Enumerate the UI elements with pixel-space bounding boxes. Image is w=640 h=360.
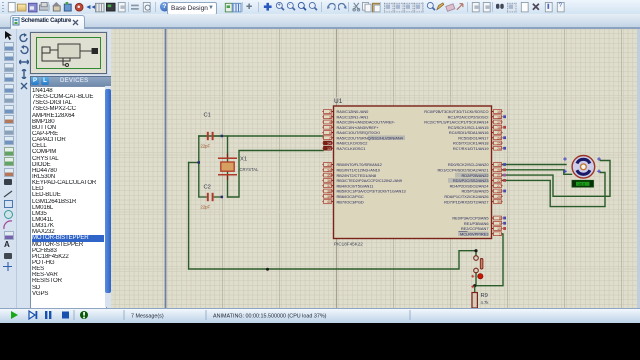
- svg-text:37: 37: [327, 184, 331, 188]
- pin 37 RB4: [323, 183, 374, 188]
- highlight MCLR: [458, 231, 489, 236]
- node gnd junction: [198, 161, 201, 164]
- pin 35 RB2: [323, 173, 377, 178]
- wire RD0 to motor LT: [501, 164, 567, 166]
- svg-text:RB0/INT0/FLT0/SRI/AN12: RB0/INT0/FLT0/SRI/AN12: [337, 162, 382, 167]
- svg-text:RB5/IOC1/P3A/CCP3/T3CKI/T1G/AN: RB5/IOC1/P3A/CCP3/T3CKI/T1G/AN13: [337, 189, 406, 194]
- svg-text:28: 28: [497, 190, 501, 194]
- pin 28 RD5: [461, 189, 506, 194]
- pin 22 RD3: [453, 178, 506, 183]
- svg-text:RD5/P1B/AN25: RD5/P1B/AN25: [461, 189, 488, 194]
- pin 39 RB6: [323, 194, 364, 199]
- svg-text:C2: C2: [204, 185, 211, 191]
- pin 2 RA0: [323, 109, 370, 114]
- svg-text:30: 30: [497, 200, 501, 204]
- svg-text:RC5/SDO1/AN17: RC5/SDO1/AN17: [458, 135, 488, 140]
- svg-text:23: 23: [497, 131, 501, 135]
- svg-text:21: 21: [497, 174, 501, 178]
- wire left cap rail: [198, 136, 200, 197]
- svg-text:8: 8: [499, 217, 501, 221]
- svg-text:18: 18: [497, 126, 501, 130]
- pin 14 RA6: [323, 141, 368, 146]
- motor counter display: [572, 180, 594, 187]
- pin 20 RD1: [437, 168, 506, 173]
- svg-text:40: 40: [327, 200, 331, 204]
- node gnd wire junction: [266, 268, 269, 271]
- svg-text:20: 20: [497, 168, 501, 172]
- motor terminal: [597, 157, 601, 161]
- pin 8 RE0: [452, 216, 506, 221]
- svg-text:13: 13: [327, 147, 331, 151]
- svg-text:1: 1: [499, 232, 501, 236]
- svg-text:RA3/C1IN+/AN3/VREF+: RA3/C1IN+/AN3/VREF+: [337, 125, 380, 130]
- svg-text:RE0/P3A/CCP3/AN5: RE0/P3A/CCP3/AN5: [452, 216, 488, 221]
- wire ground run: [189, 163, 476, 270]
- svg-text:RB3/CTED2/P2A/CCP2/C12IN2-/AN9: RB3/CTED2/P2A/CCP2/C12IN2-/AN9: [337, 178, 403, 183]
- svg-text:7: 7: [329, 136, 331, 140]
- svg-text:36: 36: [327, 179, 331, 183]
- svg-text:PIC18F45K22: PIC18F45K22: [334, 242, 363, 247]
- svg-text:10: 10: [497, 227, 501, 231]
- svg-text:MCLR/VPP/RE3: MCLR/VPP/RE3: [460, 231, 489, 236]
- svg-text:CRYSTAL: CRYSTAL: [240, 167, 260, 172]
- pin 38 RB5: [323, 189, 406, 194]
- svg-text:16: 16: [497, 115, 501, 119]
- svg-text:RB2/INT2/CTED1/AN8: RB2/INT2/CTED1/AN8: [337, 173, 377, 178]
- svg-text:RC3/SCK1/SCL1/AN15: RC3/SCK1/SCL1/AN15: [448, 125, 489, 130]
- pin 6 RA4: [323, 130, 380, 135]
- wire button bottom stub: [475, 273, 476, 286]
- svg-text:RC2/CTPLS/P1A/CCP1/T5CKI/AN14: RC2/CTPLS/P1A/CCP1/T5CKI/AN14: [424, 120, 489, 125]
- pin 9 RE1: [464, 221, 506, 226]
- motor terminal: [563, 170, 567, 174]
- svg-text:RA7/CLKI/OSC1: RA7/CLKI/OSC1: [337, 146, 366, 151]
- pin 26 RC7: [453, 146, 506, 151]
- svg-text:RD4/P2D/SDO2/AN24: RD4/P2D/SDO2/AN24: [450, 183, 490, 188]
- pin 19 RD0: [448, 162, 506, 167]
- node OSC1 junction: [221, 196, 224, 199]
- svg-text:24: 24: [497, 136, 501, 140]
- pin 10 RE2: [461, 226, 506, 231]
- svg-text:27: 27: [497, 184, 501, 188]
- svg-text:RB6/IOC2/PGC: RB6/IOC2/PGC: [337, 194, 364, 199]
- wire RD2 to motor RT loop: [501, 161, 611, 197]
- svg-text:34: 34: [327, 168, 331, 172]
- svg-text:19: 19: [497, 163, 501, 167]
- chip U1: [334, 98, 492, 247]
- pin 40 RB7: [323, 199, 364, 204]
- wire MCLR to button bottom and R9: [475, 234, 503, 286]
- svg-text:29: 29: [497, 195, 501, 199]
- svg-text:ANIMATING: 00:00:15.500000 (CP: ANIMATING: 00:00:15.500000 (CPU load 37%…: [213, 314, 327, 320]
- svg-text:33: 33: [327, 163, 331, 167]
- capacitor C2: [199, 185, 221, 210]
- svg-text:RD3/P2C/SS2/AN23: RD3/P2C/SS2/AN23: [453, 178, 489, 183]
- svg-text:RC4/SDI1/SDA1/AN16: RC4/SDI1/SDA1/AN16: [449, 130, 489, 135]
- svg-text:C1: C1: [204, 113, 211, 119]
- svg-text:RA4/C1OUT/SRQ/T0CKI: RA4/C1OUT/SRQ/T0CKI: [337, 130, 380, 135]
- svg-text:RD1/CCP4/SDI2/SDA2/AN21: RD1/CCP4/SDI2/SDA2/AN21: [437, 168, 488, 173]
- pin 1 RE3: [460, 231, 503, 236]
- highlight RD2: [455, 173, 489, 178]
- svg-text:25: 25: [497, 142, 501, 146]
- svg-text:22pF: 22pF: [201, 205, 211, 210]
- button: [471, 256, 483, 289]
- pin 17 RC2: [424, 120, 502, 125]
- svg-text:RB7/IOC3/PGD: RB7/IOC3/PGD: [337, 199, 364, 204]
- svg-text:RB1/INT1/C12IN3-/AN10: RB1/INT1/C12IN3-/AN10: [337, 168, 381, 173]
- pin 7 RA5: [323, 135, 404, 140]
- svg-text:38: 38: [327, 190, 331, 194]
- pin 13 RA7: [323, 146, 366, 151]
- svg-text:RA2/C2IN+/AN2/DACOUT/VREF-: RA2/C2IN+/AN2/DACOUT/VREF-: [337, 120, 396, 125]
- pin 21 RD2: [461, 173, 506, 178]
- svg-text:RC0/P2B/T3CKI/T3G/T1CKI/SOSCO: RC0/P2B/T3CKI/T3G/T1CKI/SOSCO: [424, 109, 488, 114]
- wire C2/crystal node to OSC1 pin: [228, 151, 324, 198]
- svg-text:RD7/P1D/RX2/DT2/AN27: RD7/P1D/RX2/DT2/AN27: [444, 199, 488, 204]
- svg-text:6: 6: [329, 131, 331, 135]
- svg-text:RD0/SCK2/SCL2/AN20: RD0/SCK2/SCL2/AN20: [448, 162, 489, 167]
- svg-text:2: 2: [329, 110, 331, 114]
- svg-text:5: 5: [329, 126, 331, 130]
- svg-text:3: 3: [329, 115, 331, 119]
- pin 15 RC0: [424, 109, 502, 114]
- highlight RD3: [448, 178, 489, 183]
- pin 4 RA2: [323, 120, 396, 125]
- svg-text:R9: R9: [481, 293, 488, 299]
- svg-text:RE2/CCP5/AN7: RE2/CCP5/AN7: [461, 226, 489, 231]
- svg-text:15: 15: [497, 110, 501, 114]
- capacitor C1: [199, 113, 221, 149]
- svg-text:RE1/P3B/AN6: RE1/P3B/AN6: [464, 221, 489, 226]
- pin 29 RD6: [444, 194, 502, 199]
- svg-text:35: 35: [327, 174, 331, 178]
- node R9 top junction: [473, 284, 476, 287]
- resistor R9: [472, 286, 489, 308]
- svg-text:17: 17: [497, 121, 501, 125]
- svg-text:RD2/P2B/AN22: RD2/P2B/AN22: [461, 173, 488, 178]
- pin 23 RC4: [449, 130, 503, 135]
- svg-text:7 Message(s): 7 Message(s): [131, 314, 164, 320]
- pin 33 RB0: [323, 162, 382, 167]
- svg-text:14: 14: [327, 142, 331, 146]
- wire RD3 to motor RB loop: [501, 173, 606, 207]
- svg-text:RD6/P1C/TX2/CK2/AN26: RD6/P1C/TX2/CK2/AN26: [444, 194, 488, 199]
- highlight RA5: [368, 135, 405, 140]
- svg-text:RA6/CLKO/OSC2: RA6/CLKO/OSC2: [337, 141, 368, 146]
- pin 27 RD4: [450, 183, 503, 188]
- svg-text:RA5/C2OUT/SRNQ/SS1/HLVDIN/AN4: RA5/C2OUT/SRNQ/SS1/HLVDIN/AN4: [337, 135, 404, 140]
- svg-text:X1: X1: [240, 157, 247, 163]
- svg-text:+0.0: +0.0: [578, 182, 585, 186]
- svg-text:22pF: 22pF: [201, 144, 211, 149]
- svg-text:26: 26: [497, 147, 501, 151]
- svg-text:4.7k: 4.7k: [481, 300, 490, 305]
- svg-text:22: 22: [497, 179, 501, 183]
- wire RD1 to motor LB: [501, 170, 572, 175]
- wire crystal vertical: [227, 136, 229, 197]
- pin 16 RC1: [448, 114, 506, 119]
- pin 25 RC6: [453, 141, 502, 146]
- pin 3 RA1: [323, 114, 369, 119]
- svg-text:RC1/P2A/CCP2/SOSCI: RC1/P2A/CCP2/SOSCI: [448, 114, 489, 119]
- pin 5 RA3: [323, 125, 380, 130]
- svg-text:9: 9: [499, 222, 501, 226]
- pin 24 RC5: [458, 135, 506, 140]
- motor stepper: [572, 156, 595, 179]
- svg-text:RC7/RX1/DT1/AN19: RC7/RX1/DT1/AN19: [453, 146, 489, 151]
- svg-text:RA0/C12IN0-/AN0: RA0/C12IN0-/AN0: [337, 109, 370, 114]
- svg-text:RB4/IOC0/T5G/AN11: RB4/IOC0/T5G/AN11: [337, 183, 374, 188]
- node OSC2 junction: [221, 135, 224, 138]
- motor terminal: [563, 157, 567, 161]
- wire C1 to OSC pin: [199, 135, 323, 137]
- wire button top stub: [475, 251, 477, 256]
- svg-text:RC6/TX1/CK1/AN18: RC6/TX1/CK1/AN18: [453, 141, 488, 146]
- node button top junction: [474, 249, 477, 252]
- pin 18 RC3: [448, 125, 506, 130]
- svg-text:4: 4: [329, 121, 331, 125]
- svg-text:39: 39: [327, 195, 331, 199]
- svg-text:RA1/C12IN1-/AN1: RA1/C12IN1-/AN1: [337, 114, 369, 119]
- pin 36 RB3: [323, 178, 403, 183]
- wire ground branch: [189, 162, 199, 164]
- crystal X1: [218, 154, 259, 181]
- pin 34 RB1: [323, 168, 381, 173]
- pin 30 RD7: [444, 199, 502, 204]
- sheet border line: [165, 29, 167, 308]
- motor terminal: [597, 170, 601, 174]
- svg-text:U1: U1: [334, 98, 343, 105]
